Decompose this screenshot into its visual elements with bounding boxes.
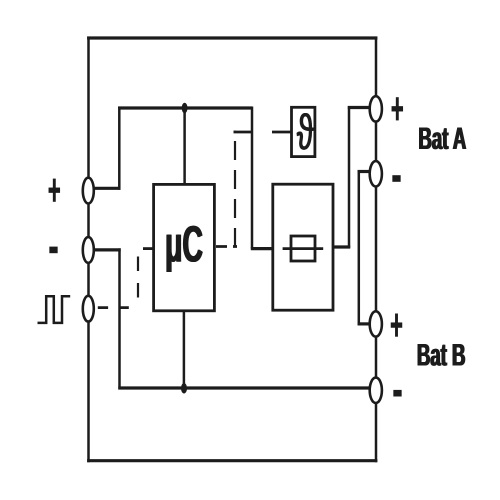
svg-text:ϑ: ϑ (297, 105, 314, 161)
svg-text:Bat A: Bat A (419, 122, 467, 156)
svg-text:μC: μC (166, 216, 204, 273)
svg-text:Bat B: Bat B (418, 339, 467, 373)
